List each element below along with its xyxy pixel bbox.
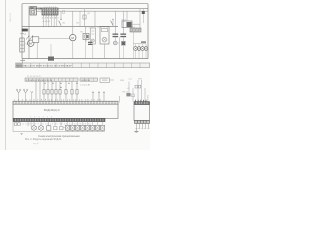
svg-text:М2: М2 xyxy=(76,22,80,24)
lamp HL2 xyxy=(39,126,44,131)
svg-text:ХР3: ХР3 xyxy=(138,78,143,80)
timer contact block KT1 xyxy=(42,8,58,15)
svg-text:M: M xyxy=(71,36,74,40)
buzzer box xyxy=(47,126,51,130)
lamp row label xyxy=(141,41,146,43)
plug X1 xyxy=(20,29,29,36)
mid bus wire xyxy=(22,26,118,28)
small note under strip xyxy=(80,83,91,86)
faint note line 3 xyxy=(33,142,39,145)
svg-text:ПВ М1 НА1 С1 КТ1 М2 Н1 Е1 К1 S: ПВ М1 НА1 С1 КТ1 М2 Н1 Е1 К1 SL1 Н2 С3 К… xyxy=(16,65,72,68)
wires around indicators xyxy=(68,122,103,132)
right board top pin strip xyxy=(134,102,150,105)
header strip row2 right xyxy=(80,78,98,82)
relay K1 xyxy=(122,11,141,27)
selector box SA1 xyxy=(30,7,37,16)
board bottom pin row xyxy=(13,118,105,121)
sensor forks xyxy=(16,89,33,101)
svg-text:к1 к2 к3: к1 к2 к3 xyxy=(43,21,51,23)
link wire through indicators xyxy=(63,127,105,129)
switch contact arrows xyxy=(26,36,33,40)
lamp row bus wire xyxy=(134,43,147,45)
bus N xyxy=(29,10,148,12)
svg-text:1 2 3 4 5 6 7 8 9 10 11 12 13: 1 2 3 4 5 6 7 8 9 10 11 12 13 xyxy=(26,80,53,82)
board A1 body xyxy=(13,104,118,118)
contact marks below strip xyxy=(44,82,78,84)
switch SA2 xyxy=(111,19,114,27)
resistors on wires xyxy=(43,87,78,94)
faint labels above strip2 xyxy=(27,76,41,78)
svg-text:Д1: Д1 xyxy=(88,13,91,15)
svg-text:+5: +5 xyxy=(127,88,130,90)
right small component dark xyxy=(126,93,134,97)
pump P1 box xyxy=(83,27,89,59)
connector box XS2 xyxy=(100,78,114,82)
board A1 top pin row xyxy=(13,101,118,104)
marks above right strip xyxy=(136,100,146,102)
text near pump xyxy=(80,31,83,33)
wire verticals mid xyxy=(80,9,95,27)
right board box xyxy=(134,105,150,121)
varistor RU1 xyxy=(121,41,125,58)
connector stem to strip xyxy=(20,59,25,63)
right pin leads xyxy=(136,123,150,128)
wire drops from timer xyxy=(43,17,57,27)
label BY-205 xyxy=(34,7,56,11)
wire M1 to M2 xyxy=(39,37,70,39)
lamp H1 xyxy=(113,41,119,45)
frame left border xyxy=(21,4,23,59)
svg-text:мод. А: мод. А xyxy=(33,142,39,145)
caption line 1 xyxy=(38,136,80,138)
ticks on mid bus xyxy=(86,27,107,29)
bottom pin numbers xyxy=(14,123,92,125)
small text x88 xyxy=(88,13,91,15)
wires strip to board xyxy=(36,81,105,101)
svg-text:Рис. 2. Модуль индикации БСД-3: Рис. 2. Модуль индикации БСД-31 xyxy=(25,139,62,141)
right block header text 1 xyxy=(120,80,125,82)
right block header text 2 xyxy=(129,78,143,80)
motor M1 xyxy=(28,40,34,46)
valve Y1 box xyxy=(90,28,95,59)
bottom pin top numbers xyxy=(30,117,53,119)
timer pin labels xyxy=(43,21,51,23)
header strip row2 left xyxy=(25,78,78,82)
wires of lamp row xyxy=(134,32,147,59)
capacitor C3 group xyxy=(113,11,127,58)
title strip table xyxy=(16,63,150,68)
small text M2 xyxy=(76,22,80,24)
svg-text:H1: H1 xyxy=(80,31,83,33)
right small text xyxy=(123,91,130,93)
svg-text:Схема электрическая принципиал: Схема электрическая принципиальная xyxy=(38,136,80,138)
small marks xyxy=(54,126,63,129)
dark comp top right xyxy=(140,9,145,28)
terminal stubs far left xyxy=(14,123,20,126)
filter C1 xyxy=(20,38,29,52)
svg-text:M: M xyxy=(29,42,32,46)
lamp HL1 xyxy=(32,126,37,131)
svg-text:БСД-31(А)-С: БСД-31(А)-С xyxy=(44,108,60,112)
wires below board xyxy=(28,122,61,127)
lamp row HL right xyxy=(134,47,148,51)
bus L xyxy=(29,8,148,10)
thermal box xyxy=(48,44,54,61)
capacitor bars xyxy=(86,40,93,46)
svg-text:3BM-2102: 3BM-2102 xyxy=(10,12,12,22)
svg-text:1 2 3 4 5 6: 1 2 3 4 5 6 xyxy=(30,117,53,119)
svg-text:В1: В1 xyxy=(63,23,66,25)
motor M2 xyxy=(70,11,76,58)
right block wires xyxy=(120,80,148,102)
ground mark left xyxy=(20,133,22,134)
svg-text:Х1 Х2 Х3 Х4 Х5: Х1 Х2 Х3 Х4 Х5 xyxy=(27,76,41,78)
frame right border xyxy=(147,4,149,59)
frame bottom line xyxy=(22,58,148,60)
svg-text:1 2 3 4 5 6 7 8 9 10 12 14 16: 1 2 3 4 5 6 7 8 9 10 12 14 16 18 20 22 2… xyxy=(14,123,92,125)
ground xyxy=(134,128,138,132)
svg-text:ХР: ХР xyxy=(24,34,27,36)
svg-text:к плате А1: к плате А1 xyxy=(80,83,91,86)
heater block E1 xyxy=(100,27,109,59)
pin numbers row xyxy=(14,100,102,102)
indicator boxes row xyxy=(65,125,104,130)
svg-text:C4 R1 V1: C4 R1 V1 xyxy=(81,80,91,82)
left margin vertical text xyxy=(10,12,12,22)
right resistor pair xyxy=(127,85,141,90)
caption line 2 xyxy=(25,139,62,141)
component on x84 xyxy=(83,15,86,19)
svg-text:ХS3: ХS3 xyxy=(120,80,125,82)
right board bottom pins xyxy=(135,120,150,123)
svg-text:вых: вых xyxy=(129,79,132,81)
switch on wire x61 xyxy=(59,11,66,27)
svg-text:ВУ-205: ВУ-205 xyxy=(34,7,42,11)
page fold line xyxy=(5,0,7,150)
left bracket wire xyxy=(13,122,105,132)
frame top line xyxy=(22,3,148,5)
pressostat box SL1 xyxy=(130,26,141,32)
timer pin ticks xyxy=(43,15,56,17)
timer pin numbers xyxy=(42,18,59,20)
capacitor box C2 xyxy=(32,37,38,59)
inner vertical wire xyxy=(28,6,30,59)
